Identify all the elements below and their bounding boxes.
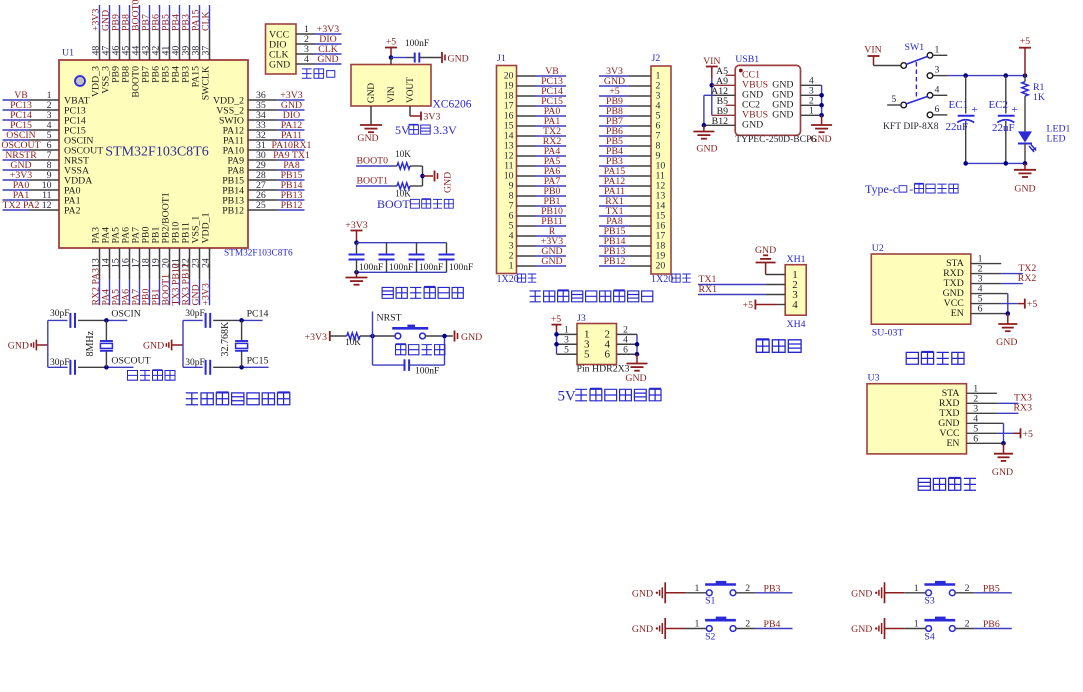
U3 gnd vertical wire bbox=[1003, 423, 1005, 443]
svg-text:8MHz: 8MHz bbox=[85, 330, 96, 356]
svg-text:CLK: CLK bbox=[201, 11, 212, 31]
capacitor C1 100nF filter bbox=[356, 243, 358, 255]
svg-text:5: 5 bbox=[891, 94, 896, 105]
svg-text:+5: +5 bbox=[1020, 36, 1031, 47]
U1 pin 18 (PB0) bottom: wire, net PB0 bbox=[149, 248, 151, 280]
wire S1 to net PB3 bbox=[736, 592, 755, 594]
svg-text:SU-03T: SU-03T bbox=[872, 328, 904, 339]
svg-text:37: 37 bbox=[201, 46, 212, 56]
svg-text:PB5: PB5 bbox=[983, 583, 1000, 594]
U3 pin 6 EN wire bbox=[967, 442, 1004, 444]
wire bottom rail of filter caps bbox=[357, 271, 447, 273]
U1 pin 21 (PB10) bottom: wire, net TX3 PB10 bbox=[179, 248, 181, 280]
wire gnd to S2 bbox=[685, 628, 707, 630]
svg-text:5: 5 bbox=[564, 345, 569, 355]
svg-text:GND: GND bbox=[541, 256, 562, 267]
U3 pin 5 VCC wire to +5 bbox=[967, 432, 997, 434]
SW1 pin wires bbox=[933, 54, 948, 56]
junction BOOT node bbox=[420, 174, 425, 179]
svg-text:S3: S3 bbox=[924, 596, 934, 607]
U2 pin 1 wire bbox=[971, 263, 1001, 265]
svg-text:6: 6 bbox=[935, 104, 940, 115]
svg-text:GND: GND bbox=[143, 340, 164, 351]
svg-text:EN: EN bbox=[946, 438, 959, 449]
crystal Y 8MHz bbox=[105, 320, 107, 341]
svg-text:GND: GND bbox=[357, 133, 378, 144]
svg-text:S2: S2 bbox=[705, 631, 715, 642]
svg-text:VIN: VIN bbox=[387, 86, 397, 103]
XH1 pin 2 wire net TX1 bbox=[698, 284, 766, 286]
U1 pin 25 (PB12) right: wire, net PB12 bbox=[248, 209, 278, 211]
U1 pin 42 (PB6) top: wire, net PB6 bbox=[159, 30, 161, 60]
push button S1 bbox=[706, 590, 712, 596]
svg-text:J1: J1 bbox=[497, 53, 506, 64]
svg-text:STM32F103C8T6: STM32F103C8T6 bbox=[105, 145, 208, 160]
U1 pin 26 (PB13) right: wire, net PB13 bbox=[248, 199, 278, 201]
J3 right pins wire 2,4,6 bbox=[636, 334, 638, 354]
title at U2 bbox=[906, 352, 918, 364]
svg-text:TX2 PA2: TX2 PA2 bbox=[3, 200, 40, 211]
svg-text:Pin HDR2X3: Pin HDR2X3 bbox=[577, 364, 630, 375]
svg-text:VOUT: VOUT bbox=[406, 77, 416, 103]
U1 pin 7 (NRST) left: wire, net NRSTR bbox=[30, 159, 60, 161]
svg-text:1: 1 bbox=[564, 326, 569, 336]
svg-text:EC2: EC2 bbox=[989, 99, 1009, 111]
ground bar GND right of capacitor bbox=[441, 52, 443, 63]
wire gnd to S4 bbox=[904, 628, 926, 630]
ground earth at U2 bbox=[1007, 314, 1009, 324]
wire right gnd vertical bbox=[821, 85, 823, 115]
svg-text:EN: EN bbox=[951, 308, 964, 319]
svg-text:100nF: 100nF bbox=[405, 39, 429, 49]
svg-text:XC6206: XC6206 bbox=[433, 99, 472, 111]
U1 pin 9 (VDDA) left: wire, net +3V3 bbox=[30, 179, 60, 181]
wire NRST vertical bbox=[372, 312, 374, 337]
svg-text:3: 3 bbox=[564, 336, 569, 346]
module U2 body bbox=[871, 254, 971, 324]
svg-text:100nF: 100nF bbox=[359, 263, 383, 273]
svg-text:30pF: 30pF bbox=[50, 309, 70, 319]
svg-text:30pF: 30pF bbox=[185, 358, 205, 368]
wire to GND bar bbox=[423, 175, 434, 177]
connector J2 1x20 header box bbox=[651, 66, 671, 274]
U1 pin 2 (PC13) left: wire, net PC13 bbox=[30, 109, 60, 111]
U1 pin 43 (PB7) top: wire, net PB7 bbox=[149, 30, 151, 60]
junction bottom LED bbox=[1023, 161, 1028, 166]
svg-text:+: + bbox=[972, 104, 978, 116]
U1 pin 40 (PB4) top: wire, net PB4 bbox=[179, 30, 181, 60]
svg-text:GND: GND bbox=[269, 60, 290, 71]
U3 pin 1 wire bbox=[967, 392, 997, 394]
svg-text:RX1: RX1 bbox=[699, 284, 718, 295]
capacitor C 100nF at regulator input bbox=[407, 57, 414, 59]
svg-text:22uF: 22uF bbox=[992, 122, 1015, 134]
svg-text:BOOT0: BOOT0 bbox=[357, 156, 389, 167]
U1 pin 31 (PA10) right: wire, net PA10RX1 bbox=[248, 149, 278, 151]
svg-text:32.768K: 32.768K bbox=[220, 321, 231, 357]
svg-text:3: 3 bbox=[935, 65, 940, 76]
wire VIN pin to +5 node bbox=[390, 58, 392, 65]
ground earth below LED bbox=[1024, 163, 1026, 169]
svg-text:GND: GND bbox=[448, 53, 469, 64]
svg-text:1K: 1K bbox=[1033, 92, 1045, 103]
svg-text:GND: GND bbox=[755, 245, 776, 256]
U3 pin 3 wire net RX3 bbox=[967, 412, 997, 414]
wire bottom rail bbox=[966, 162, 1025, 164]
junction U2 gnd bbox=[1006, 311, 1011, 316]
svg-text:1: 1 bbox=[509, 261, 514, 272]
U2 pin 3 wire net RX2 bbox=[971, 283, 1001, 285]
wire S3 to net PB5 bbox=[955, 592, 974, 594]
svg-text:J2: J2 bbox=[652, 53, 661, 64]
svg-text:BOOT1: BOOT1 bbox=[357, 176, 389, 187]
regulator U XC6206 body bbox=[351, 65, 431, 107]
title reset circuit bbox=[396, 344, 406, 355]
capacitor C 100nF reset bbox=[372, 336, 374, 365]
connector XH1 box bbox=[785, 265, 806, 316]
ground earth below regulator bbox=[360, 124, 382, 126]
resistor R 10K on BOOT1 bbox=[397, 183, 410, 189]
ground earth below filter caps bbox=[356, 272, 358, 277]
resistor R1 1K bbox=[1024, 76, 1026, 82]
svg-text:2: 2 bbox=[623, 326, 628, 336]
svg-text:GND: GND bbox=[696, 144, 717, 155]
svg-text:100nF: 100nF bbox=[415, 367, 439, 377]
connector P1 download port box bbox=[266, 24, 297, 74]
svg-text:PB12: PB12 bbox=[281, 200, 303, 211]
wire gnd to S1 bbox=[685, 592, 707, 594]
title MCU pin breakout header bbox=[530, 291, 541, 302]
download port pin 1 wire, net +3V3 bbox=[296, 33, 315, 35]
U1 pin 41 (PB5) top: wire, net PB5 bbox=[169, 30, 171, 60]
U3 pin 2 wire net TX3 bbox=[967, 402, 997, 404]
ground bar at reset bbox=[454, 331, 456, 342]
svg-text:10K: 10K bbox=[345, 337, 361, 347]
capacitor C3 100nF filter bbox=[416, 243, 418, 255]
net label PC14 wire bbox=[242, 319, 263, 321]
wire A12-B12 gnd vertical bbox=[703, 95, 705, 125]
crystal Y 32.768K bbox=[241, 320, 243, 341]
svg-text:OSCIN: OSCIN bbox=[111, 309, 140, 320]
svg-text:EC1: EC1 bbox=[949, 99, 969, 111]
wire VIN to SW1 pin2 bbox=[874, 65, 901, 67]
capacitor C4 100nF filter bbox=[446, 243, 448, 255]
svg-text:USB1: USB1 bbox=[735, 54, 759, 65]
U3 pin 4 GND wire bbox=[967, 422, 1004, 424]
U1 pin 3 (PC14) left: wire, net PC14 bbox=[30, 119, 60, 121]
power bar +5 at U3 bbox=[1020, 428, 1022, 438]
U1 pin 39 (PB3) top: wire, net PB3 bbox=[189, 30, 191, 60]
svg-text:4: 4 bbox=[792, 299, 798, 311]
svg-text:25: 25 bbox=[256, 200, 266, 211]
wire joining BOOT resistors bbox=[422, 166, 424, 186]
connector USB1 TYPEC body bbox=[735, 65, 800, 135]
svg-text:5V: 5V bbox=[558, 389, 577, 405]
U1 pin 13 (PA3) bottom: wire, net RX2 PA3 bbox=[99, 248, 101, 280]
wire GND pin down bbox=[370, 106, 372, 125]
svg-text:U3: U3 bbox=[868, 373, 880, 384]
svg-text:OSCOUT: OSCOUT bbox=[111, 356, 150, 367]
svg-text:1: 1 bbox=[914, 583, 919, 594]
download port pin 3 wire, net CLK bbox=[296, 53, 315, 55]
junction bottom rail left bbox=[354, 270, 359, 275]
U1 pin 23 (VSS_1) bottom: wire, net GND bbox=[199, 248, 201, 280]
push button S3 bbox=[926, 590, 932, 596]
push button S4 bbox=[926, 626, 932, 632]
junction OSCOUT node bbox=[104, 365, 109, 370]
XH1 pin 1 wire to gnd bbox=[766, 274, 786, 276]
wire S4 to net PB6 bbox=[955, 628, 974, 630]
svg-text:20: 20 bbox=[656, 261, 666, 272]
U1 pin 19 (PB1) bottom: wire, net PB1 bbox=[159, 248, 161, 280]
svg-text:PB12: PB12 bbox=[222, 205, 244, 216]
power bar 3V3 at regulator output bbox=[420, 112, 422, 121]
junctions right gnd bbox=[819, 93, 824, 98]
svg-text:+3V3: +3V3 bbox=[305, 332, 327, 343]
junction B12 gnd bbox=[702, 123, 707, 128]
junction reset node bbox=[370, 334, 375, 339]
IC U1 STM32F103C8T6 MCU body bbox=[59, 60, 248, 248]
junction rail EC2 bbox=[1004, 73, 1009, 78]
ground earth left of USB1 bbox=[703, 125, 705, 131]
title chip filter capacitors bbox=[382, 287, 393, 298]
svg-text:VIN: VIN bbox=[864, 45, 881, 56]
svg-text:+: + bbox=[1012, 104, 1018, 116]
capacitor C2 100nF filter bbox=[386, 243, 388, 255]
svg-text:22uF: 22uF bbox=[946, 121, 969, 133]
U1 pin 22 (PB11) bottom: wire, net RX3 PB11 bbox=[189, 248, 191, 280]
svg-text:TYPEC-250D-BCP6: TYPEC-250D-BCP6 bbox=[735, 134, 816, 145]
svg-text:GND: GND bbox=[461, 332, 482, 343]
junction PC15 node bbox=[239, 365, 244, 370]
junction U3 gnd bbox=[1001, 441, 1006, 446]
svg-text:GND: GND bbox=[851, 588, 872, 599]
U1 pin 33 (PA12) right: wire, net PA12 bbox=[248, 129, 278, 131]
wire +5 to capacitor bbox=[391, 57, 407, 59]
U1 pin-1 indicator circle bbox=[75, 76, 85, 86]
U1 pin 27 (PB14) right: wire, net PB14 bbox=[248, 189, 278, 191]
module U3 body bbox=[867, 384, 967, 454]
ground bar at BOOT circuit bbox=[434, 171, 436, 182]
title touch screen bbox=[756, 339, 769, 352]
U2 pin 2 wire net TX2 bbox=[971, 273, 1001, 275]
U1 pin 14 (PA4) bottom: wire, net PA4 bbox=[109, 248, 111, 280]
svg-text:GND: GND bbox=[992, 467, 1013, 478]
svg-text:1: 1 bbox=[695, 583, 700, 594]
net label PC15 wire bbox=[242, 366, 269, 368]
J3 left pins wire 1,3,5 bbox=[556, 334, 558, 354]
svg-text:GND: GND bbox=[317, 54, 338, 65]
svg-text:SWCLK: SWCLK bbox=[201, 66, 212, 100]
connector J3 HDR2X3 box bbox=[577, 324, 617, 365]
svg-text:5: 5 bbox=[584, 348, 590, 360]
svg-text:10K: 10K bbox=[395, 149, 411, 159]
svg-text:S4: S4 bbox=[924, 631, 934, 642]
svg-text:PB6: PB6 bbox=[983, 619, 1000, 630]
svg-text:24: 24 bbox=[201, 258, 212, 268]
svg-text:S1: S1 bbox=[705, 596, 715, 607]
svg-text:STM32F103C8T6: STM32F103C8T6 bbox=[224, 249, 293, 259]
junction PC14 node bbox=[239, 318, 244, 323]
svg-text:PB4: PB4 bbox=[764, 619, 781, 630]
svg-text:GND: GND bbox=[851, 624, 872, 635]
connector J1 1x20 header box bbox=[497, 66, 517, 274]
net label OSCIN wire bbox=[106, 319, 127, 321]
svg-text:XH4: XH4 bbox=[787, 319, 806, 330]
U1 pin 17 (PA7) bottom: wire, net PA7 bbox=[139, 248, 141, 280]
junction rail R1 bbox=[1023, 73, 1028, 78]
wire gnd to S3 bbox=[904, 592, 926, 594]
svg-text:PC15: PC15 bbox=[247, 356, 269, 367]
svg-text:3V3: 3V3 bbox=[424, 112, 441, 123]
U1 pin 47 (VSS_3) top: wire, net GND bbox=[109, 30, 111, 60]
svg-text:6: 6 bbox=[623, 345, 628, 355]
svg-text:BOOT: BOOT bbox=[377, 197, 410, 211]
U1 pin 35 (VSS_2) right: wire, net GND bbox=[248, 109, 278, 111]
svg-text:J3: J3 bbox=[577, 313, 586, 324]
U1 pin 16 (PA6) bottom: wire, net PA6 bbox=[129, 248, 131, 280]
svg-text:1X20: 1X20 bbox=[497, 274, 519, 285]
svg-text:LED: LED bbox=[1047, 134, 1066, 145]
title crystal circuit bbox=[128, 371, 138, 381]
download port pin 2 wire, net DIO bbox=[296, 43, 315, 45]
svg-text:GND: GND bbox=[443, 172, 454, 193]
svg-text:U2: U2 bbox=[872, 243, 884, 254]
resistor R 10K on BOOT0 bbox=[397, 163, 410, 169]
svg-text:-: - bbox=[909, 182, 913, 196]
SW1 arm 2-1 bbox=[906, 56, 927, 64]
junction reset right node bbox=[442, 334, 447, 339]
svg-text:30pF: 30pF bbox=[50, 358, 70, 368]
U2 gnd vertical wire bbox=[1007, 294, 1009, 314]
svg-text:Type-c: Type-c bbox=[865, 182, 898, 196]
svg-text:GND: GND bbox=[632, 624, 653, 635]
SW1 arm 5-4 bbox=[906, 96, 927, 104]
svg-text:5V: 5V bbox=[395, 123, 410, 137]
U1 pin 44 (BOOT0) top: wire, net BOOT0 bbox=[139, 30, 141, 60]
junction J3 right pins bbox=[635, 342, 640, 347]
U1 pin 12 (PA2) left: wire, net TX2 PA2 bbox=[30, 209, 60, 211]
svg-text:PB12: PB12 bbox=[604, 256, 626, 267]
U1 pin 36 (VDD_2) right: wire, net +3V3 bbox=[248, 99, 278, 101]
svg-text:U1: U1 bbox=[62, 48, 74, 59]
svg-text:100nF: 100nF bbox=[449, 263, 473, 273]
node junction +5 / VIN / C bbox=[389, 55, 394, 60]
svg-text:GND: GND bbox=[742, 120, 763, 131]
svg-text:PB3: PB3 bbox=[764, 583, 781, 594]
title xiazaikou (download port) bbox=[302, 69, 312, 78]
svg-text:GND: GND bbox=[367, 83, 377, 103]
svg-text:+3V3: +3V3 bbox=[345, 220, 367, 231]
U1 pin 38 (PA15) top: wire, net PA15 bbox=[199, 30, 201, 60]
U1 pin 34 (SWIO) right: wire, net DIO bbox=[248, 119, 278, 121]
junction bottom EC2 bbox=[1004, 161, 1009, 166]
svg-text:GND: GND bbox=[996, 337, 1017, 348]
svg-text:PC14: PC14 bbox=[247, 309, 269, 320]
wire VOUT pin down and right bbox=[409, 106, 411, 116]
svg-text:100nF: 100nF bbox=[389, 263, 413, 273]
svg-text:4: 4 bbox=[304, 54, 309, 65]
push button S2 bbox=[706, 626, 712, 632]
ground earth right of USB1 bbox=[821, 115, 823, 124]
LED LED1 bbox=[1018, 131, 1032, 142]
wire top rail of filter caps bbox=[357, 242, 447, 244]
net label OSCOUT wire bbox=[106, 366, 133, 368]
svg-text:+5: +5 bbox=[386, 37, 397, 48]
svg-text:VDD_1: VDD_1 bbox=[201, 212, 212, 243]
U1 pin 10 (PA0) left: wire, net PA0 bbox=[30, 189, 60, 191]
svg-text:30pF: 30pF bbox=[185, 309, 205, 319]
U1 pin 29 (PA8) right: wire, net PA8 bbox=[248, 169, 278, 171]
svg-text:3.3V: 3.3V bbox=[433, 123, 457, 137]
svg-text:+5: +5 bbox=[1027, 299, 1038, 310]
svg-text:RX2: RX2 bbox=[1018, 273, 1037, 284]
svg-text:6: 6 bbox=[605, 348, 611, 360]
svg-text:4: 4 bbox=[935, 84, 940, 95]
U1 pin 32 (PA11) right: wire, net PA11 bbox=[248, 139, 278, 141]
wire switch output rail bbox=[947, 75, 1025, 77]
push button SW reset bbox=[395, 333, 401, 339]
resistor R 10K reset bbox=[347, 333, 360, 339]
wire left vertical 32.768K bbox=[182, 320, 184, 367]
U1 pin 11 (PA1) left: wire, net PA1 bbox=[30, 199, 60, 201]
svg-text:1: 1 bbox=[935, 44, 940, 55]
capacitor EC1 22uF electrolytic bbox=[965, 76, 967, 114]
U2 pin 4 GND wire bbox=[971, 293, 1008, 295]
junction top rail left bbox=[354, 240, 359, 245]
svg-text:GND: GND bbox=[632, 588, 653, 599]
XH1 pin 3 wire net RX1 bbox=[698, 294, 766, 296]
title MCU minimal system bbox=[186, 393, 198, 405]
U1 pin 5 (OSCIN) left: wire, net OSCIN bbox=[30, 139, 60, 141]
U1 pin 15 (PA5) bottom: wire, net PA5 bbox=[119, 248, 121, 280]
svg-text:12: 12 bbox=[42, 200, 52, 211]
svg-text:+3V3: +3V3 bbox=[201, 283, 212, 305]
svg-text:GND: GND bbox=[1014, 184, 1035, 195]
junction OSCIN node bbox=[104, 318, 109, 323]
svg-text:1: 1 bbox=[695, 619, 700, 630]
svg-text:GND: GND bbox=[625, 373, 646, 384]
wire left vertical 8MHz bbox=[47, 320, 49, 367]
U1 pin 28 (PB15) right: wire, net PB15 bbox=[248, 179, 278, 181]
U1 pin 37 (SWCLK) top: wire, net CLK bbox=[209, 30, 211, 60]
SW1 dashed link bbox=[915, 62, 917, 99]
U1 pin 30 (PA9) right: wire, net PA9 TX1 bbox=[248, 159, 278, 161]
U2 pin 5 VCC wire to +5 bbox=[971, 303, 1001, 305]
title at U3 bbox=[918, 478, 930, 490]
svg-text:+5: +5 bbox=[1023, 429, 1034, 440]
svg-text:+5: +5 bbox=[551, 314, 562, 325]
junction J3 left pins bbox=[554, 332, 559, 337]
svg-text:NRST: NRST bbox=[377, 313, 402, 324]
junction VIN/A9 bbox=[710, 83, 715, 88]
wire S2 to net PB4 bbox=[736, 628, 755, 630]
ground earth at J3 bbox=[636, 354, 638, 363]
svg-text:4: 4 bbox=[623, 336, 628, 346]
U1 pin 48 (VDD_3) top: wire, net +3V3 bbox=[99, 30, 101, 60]
svg-text:RX3: RX3 bbox=[1013, 403, 1032, 414]
wire button to GND bar bbox=[425, 335, 452, 337]
U1 pin 4 (PC15) left: wire, net PC15 bbox=[30, 129, 60, 131]
wire VIN to VBUS pins bbox=[711, 78, 713, 115]
U1 pin 20 (PB2/BOOT1) bottom: wire, net BOOT1 bbox=[169, 248, 171, 280]
U1 pin 1 (VBAT) left: wire, net VB bbox=[30, 99, 60, 101]
capacitor EC2 22uF electrolytic bbox=[1005, 76, 1007, 114]
junction rail EC1 bbox=[963, 73, 968, 78]
svg-text:1: 1 bbox=[914, 619, 919, 630]
U1 pin 46 (PB9) top: wire, net PB9 bbox=[119, 30, 121, 60]
U1 pin 6 (OSCOUT) left: wire, net OSCOUT bbox=[30, 149, 60, 151]
